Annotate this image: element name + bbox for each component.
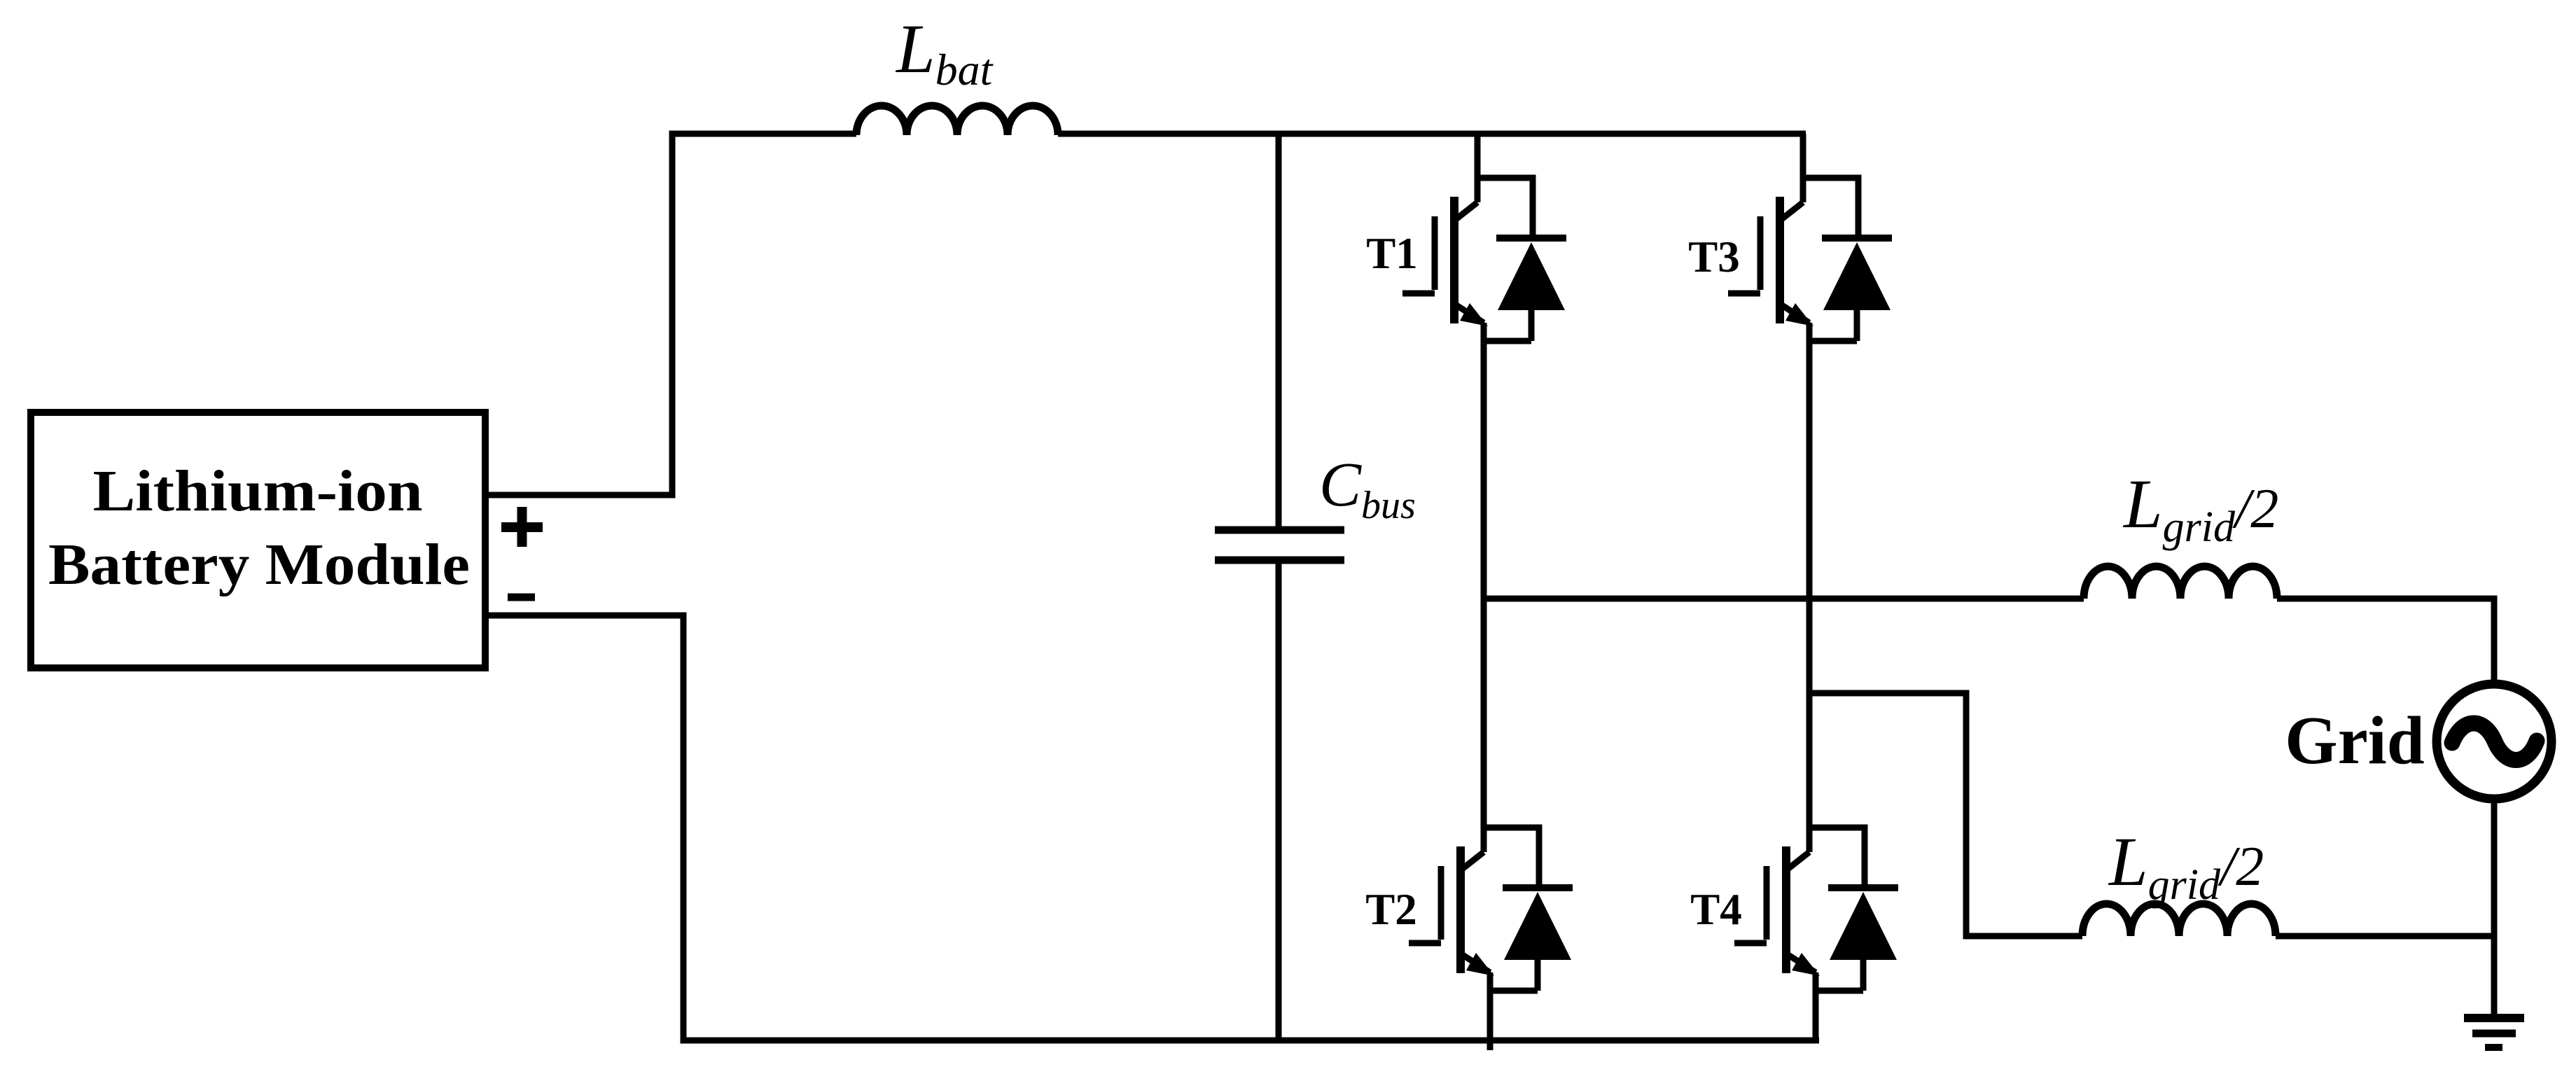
- svg-text:Lgrid/2: Lgrid/2: [2108, 823, 2264, 909]
- svg-text:Lbat: Lbat: [895, 10, 994, 95]
- svg-text:Lithium-ion: Lithium-ion: [93, 459, 423, 524]
- svg-text:T1: T1: [1366, 229, 1418, 278]
- svg-text:Lgrid/2: Lgrid/2: [2122, 465, 2278, 551]
- svg-text:Cbus: Cbus: [1319, 450, 1416, 527]
- svg-text:T4: T4: [1690, 885, 1742, 934]
- svg-text:T2: T2: [1365, 885, 1417, 934]
- svg-text:T3: T3: [1688, 232, 1740, 281]
- svg-text:Grid: Grid: [2285, 703, 2424, 778]
- svg-text:Battery Module: Battery Module: [48, 532, 470, 597]
